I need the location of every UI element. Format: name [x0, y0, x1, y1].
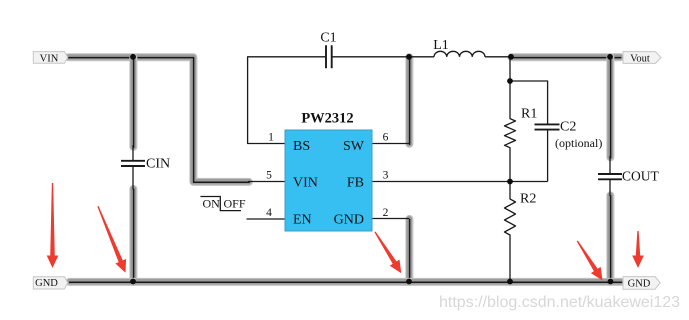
svg-text:https://blog.csdn.net/kuakewei: https://blog.csdn.net/kuakewei123: [439, 294, 680, 311]
svg-text:3: 3: [383, 170, 389, 182]
net label VIN: [33, 52, 68, 65]
net label GND left: [33, 277, 68, 289]
svg-text:PW2312: PW2312: [301, 111, 353, 127]
svg-text:C1: C1: [320, 31, 336, 46]
red arrow 2 (CIN GND junction): [93, 204, 131, 275]
svg-text:L1: L1: [433, 38, 449, 53]
wire C2 branch top (thin): [510, 81, 548, 124]
wire CIN leads (thin): [132, 145, 134, 190]
capacitor C2: [535, 120, 603, 151]
wire CIN upper segment (thick): [129, 57, 137, 147]
svg-text:VIN: VIN: [293, 176, 318, 191]
junction node VIN/CIN: [130, 54, 136, 60]
net label GND right: [623, 277, 660, 290]
red arrow 3 (COUT GND junction): [572, 238, 607, 284]
wire COUT leads (thin): [609, 156, 611, 196]
svg-text:OFF: OFF: [224, 197, 246, 211]
junction node GND/CIN: [130, 279, 136, 285]
inductor L1: [433, 38, 485, 57]
wire R1 branch with resistor body: [505, 57, 516, 182]
wire COUT lower segment (thick): [606, 195, 614, 282]
svg-text:5: 5: [266, 170, 272, 182]
capacitor COUT: [598, 169, 660, 184]
wire Vout rail (thick): [511, 53, 620, 62]
svg-text:GND: GND: [334, 213, 364, 228]
svg-text:FB: FB: [347, 176, 364, 191]
svg-text:COUT: COUT: [622, 169, 660, 184]
svg-text:EN: EN: [293, 213, 312, 228]
wire R2 branch with resistor body: [505, 182, 516, 282]
wire CIN lower segment (thick): [129, 189, 137, 283]
wire C2 branch bottom (thin): [547, 130, 549, 182]
svg-text:ON: ON: [203, 197, 221, 211]
svg-text:6: 6: [383, 132, 389, 144]
svg-text:GND: GND: [35, 278, 58, 289]
red arrow 1 (left GND): [47, 183, 59, 268]
junction node FB divider: [507, 179, 513, 185]
wire COUT upper segment (thick): [606, 57, 614, 158]
svg-text:GND: GND: [628, 279, 651, 290]
pin 2 GND stub: [372, 218, 409, 220]
junction node GND/COUT: [608, 279, 614, 285]
wire C1 right to SW junction (thin): [332, 56, 409, 58]
junction node GND/R2: [507, 279, 513, 285]
svg-text:4: 4: [266, 207, 272, 219]
net label Vout: [623, 52, 661, 65]
svg-text:Vout: Vout: [630, 54, 650, 65]
junction node Vout/COUT: [607, 54, 613, 60]
svg-text:BS: BS: [293, 139, 310, 154]
wire SW net vertical drop (thick): [405, 57, 413, 144]
red arrow 4 (right GND label): [632, 231, 644, 268]
junction node GND/pin2: [406, 279, 412, 285]
wire VIN rail (thick: VIN label to pin5): [68, 57, 249, 182]
wire GND pin drop (thick): [405, 219, 413, 283]
ON/OFF enable waveform: [200, 197, 245, 211]
svg-text:VIN: VIN: [40, 54, 59, 65]
svg-text:(optional): (optional): [555, 136, 602, 150]
op-amp U1 PW2312 body: [285, 111, 372, 232]
wire SW junction to L1 (thin): [409, 56, 434, 58]
svg-text:2: 2: [383, 207, 389, 219]
pin 3 FB wire to divider junction (thin): [372, 181, 548, 183]
capacitor CIN: [121, 157, 170, 172]
wire GND rail (thick): [69, 278, 621, 287]
red arrow 5 (pin2 GND junction): [370, 229, 406, 277]
svg-text:1: 1: [268, 132, 274, 144]
junction node SW/C1: [406, 54, 412, 60]
capacitor C1: [320, 31, 336, 69]
svg-text:SW: SW: [343, 139, 365, 154]
wire L1 to Vout junction (thin): [485, 56, 511, 58]
pin 5 VIN stub: [248, 181, 285, 183]
junction node R1/C2 top: [507, 78, 513, 84]
junction node Vout/R1: [508, 54, 514, 60]
pin 6 SW stub: [372, 143, 409, 145]
svg-text:C2: C2: [560, 120, 576, 135]
svg-text:R2: R2: [520, 192, 536, 207]
wire BS bootstrap loop (thin): [248, 57, 326, 144]
svg-text:R1: R1: [521, 107, 537, 122]
pin 4 EN stub: [247, 218, 286, 220]
svg-text:CIN: CIN: [146, 157, 170, 172]
